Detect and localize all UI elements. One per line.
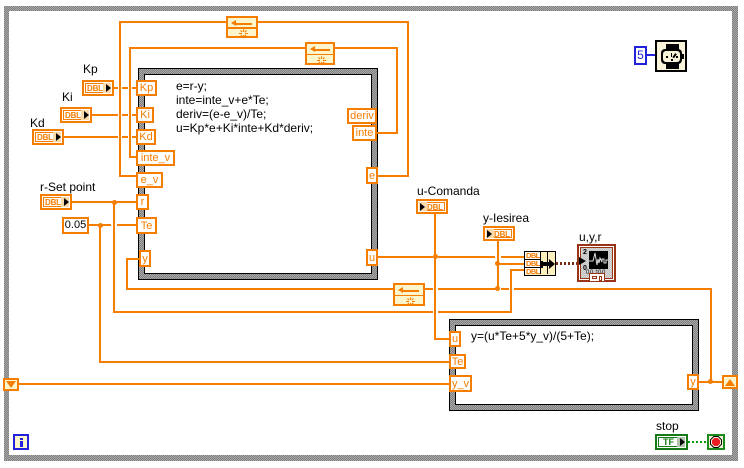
bundle function bbox=[524, 251, 556, 276]
node 0.05 junction bbox=[98, 223, 103, 228]
wire y-Iesirea vertical x498 bbox=[497, 240, 499, 290]
while loop border left bbox=[4, 6, 9, 460]
node r junction bbox=[112, 200, 117, 205]
label Kd bbox=[30, 117, 45, 130]
chart indicator u,y,r bbox=[577, 244, 616, 282]
terminal e_v bbox=[136, 172, 163, 188]
wire r-Set point horizontal bbox=[72, 201, 136, 203]
control r DBL bbox=[40, 194, 72, 210]
cluster wire bundle to chart bbox=[556, 262, 577, 265]
terminal y output node2 bbox=[687, 374, 699, 390]
terminal y_v node2 bbox=[449, 375, 472, 392]
wire inte_v into node1 bbox=[129, 156, 137, 158]
wire Kd bbox=[64, 136, 118, 138]
label Kp bbox=[83, 63, 98, 76]
terminal deriv bbox=[347, 108, 377, 124]
node y-Iesirea junction bbox=[495, 261, 500, 266]
terminal e bbox=[366, 167, 378, 184]
wire inte_v vertical x130 bbox=[129, 47, 131, 158]
wire e_v vertical x120 bbox=[119, 21, 121, 177]
wire u into node2 bbox=[434, 338, 450, 340]
while loop border bottom bbox=[4, 455, 738, 461]
wire r horizontal y312 bbox=[113, 311, 433, 313]
wire green dotted TF to stop button bbox=[688, 441, 707, 443]
node u junction bbox=[433, 254, 438, 259]
terminal Te node2 bbox=[449, 354, 466, 369]
wire e_v into node1 bbox=[119, 175, 137, 177]
label Ki bbox=[62, 91, 73, 104]
terminal u output bbox=[366, 249, 378, 266]
terminal r bbox=[136, 194, 149, 210]
label y-Iesirea bbox=[483, 212, 529, 225]
wire inte out of node1 bbox=[377, 132, 398, 134]
wire y_v from shift register bbox=[19, 383, 450, 385]
control Ki DBL bbox=[60, 107, 92, 123]
wait (ms) function bbox=[655, 40, 687, 72]
wire y into node1 vertical x127 bbox=[126, 258, 128, 290]
left shift register bbox=[3, 378, 19, 391]
label r-Set point bbox=[40, 181, 95, 194]
wire Te to formula node 2 bbox=[99, 361, 450, 363]
wire r vertical x114 bbox=[113, 201, 115, 313]
label u-Comanda bbox=[417, 185, 480, 198]
feedback node FB2 (inte_v) bbox=[305, 42, 335, 65]
wire u-Comanda vertical x435 bbox=[434, 213, 436, 340]
label u,y,r bbox=[579, 231, 601, 244]
terminal y node1 bbox=[139, 250, 151, 267]
while loop border right bbox=[732, 6, 738, 461]
terminal inte bbox=[352, 125, 377, 141]
wire 0.05 horizontal bbox=[89, 224, 111, 226]
right shift register bbox=[722, 375, 738, 389]
node y junction x498 bbox=[495, 286, 500, 291]
terminal u node2 bbox=[449, 331, 461, 347]
wire r to bundle bbox=[510, 269, 524, 271]
wire u output y257 bbox=[378, 256, 433, 258]
wire 0.05 vertical x100 bbox=[99, 224, 101, 363]
constant 5 bbox=[634, 46, 647, 65]
control Kd DBL bbox=[32, 129, 64, 145]
indicator u-Comanda DBL bbox=[416, 199, 448, 214]
feedback node FB3 (y_v inner) bbox=[393, 283, 425, 306]
while loop border top bbox=[4, 6, 737, 11]
wire Kp bbox=[114, 87, 118, 89]
wire Ki bbox=[92, 114, 118, 116]
wire inte feedback vertical x397 bbox=[396, 47, 398, 134]
loop condition stop button bbox=[707, 434, 725, 450]
wire bundle row2 y264 bbox=[497, 263, 524, 265]
wire y into node1 horizontal bbox=[126, 258, 140, 260]
wire r vertical x511 bbox=[510, 269, 512, 313]
iteration terminal i bbox=[13, 434, 29, 450]
indicator y-Iesirea DBL bbox=[483, 226, 515, 241]
wire y out of node2 bbox=[698, 381, 723, 383]
formula node 1 code text bbox=[176, 79, 313, 135]
terminal Ki bbox=[136, 107, 154, 123]
label stop bbox=[656, 420, 679, 433]
formula node 2 code text bbox=[471, 329, 594, 343]
wire blue 5 to wait bbox=[646, 54, 656, 56]
wire y feedback y289 bbox=[127, 288, 393, 290]
wire e out of node1 bbox=[377, 175, 408, 177]
terminal Te bbox=[136, 217, 157, 234]
node y out junction bbox=[708, 379, 713, 384]
terminal inte_v bbox=[136, 150, 175, 166]
wire inte feedback y48 bbox=[129, 47, 305, 49]
wire y feedback vertical x711 bbox=[710, 288, 712, 383]
feedback node FB1 (e_v) bbox=[226, 16, 258, 38]
terminal Kp bbox=[136, 80, 157, 96]
formula node 2 frame bbox=[449, 319, 699, 411]
formula node 1 frame bbox=[138, 68, 378, 280]
control stop TF bbox=[655, 434, 688, 450]
wire e feedback top y22 bbox=[119, 21, 226, 23]
terminal Kd bbox=[136, 129, 156, 145]
wire e feedback vertical x408 bbox=[407, 21, 409, 177]
constant 0.05 bbox=[62, 217, 89, 234]
control Kp DBL bbox=[82, 80, 114, 96]
